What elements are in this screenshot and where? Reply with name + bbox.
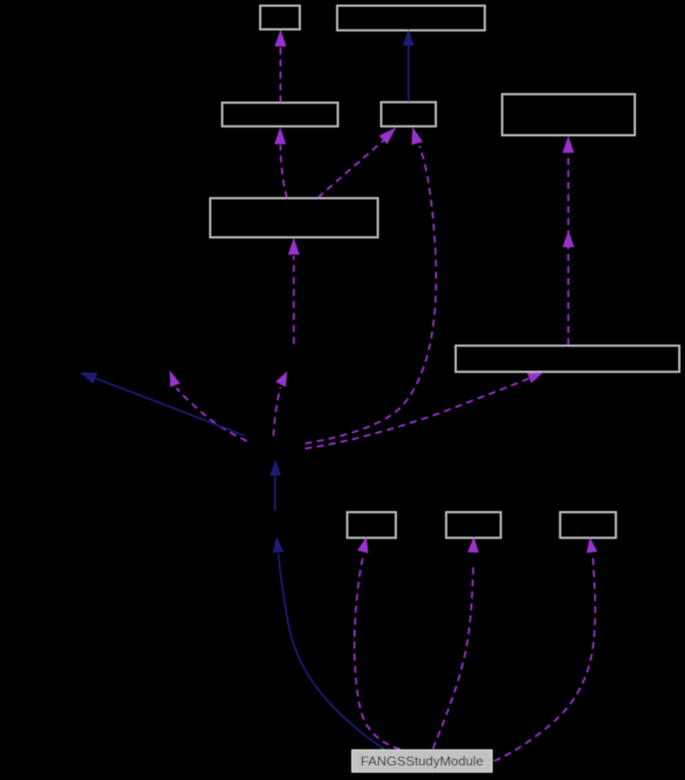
edge box6 to box3 (dashed): [274, 127, 287, 198]
node box3 (second row left): [222, 103, 338, 127]
edge hidden lower node to junction (solid navy): [270, 459, 282, 511]
node box2 (top wide): [337, 6, 485, 31]
node box10 (small row): [560, 512, 616, 538]
node box4 (second row middle): [381, 102, 436, 127]
edge FANGSStudyModule to box8 (dashed): [354, 537, 400, 749]
edge box4 to box2 (solid inheritance): [403, 29, 415, 102]
edge FANGSStudyModule to hidden lower node (long solid navy curve): [272, 536, 384, 749]
node box1 (top-left small): [260, 6, 300, 30]
edge junction to box7 (dashed): [305, 372, 544, 448]
node box7 (middle right wide): [456, 346, 680, 373]
edge junction to hidden mid node (dashed): [274, 371, 288, 436]
node FANGSStudyModule (current, filled): [352, 750, 492, 772]
edge FANGSStudyModule to box10 (dashed): [494, 537, 598, 761]
node box5 (second row right, tall): [502, 94, 635, 135]
edge junction to far left (solid navy): [80, 372, 245, 435]
edge FANGSStudyModule to box9 (dashed): [433, 537, 479, 749]
node box8 (small row): [347, 512, 396, 538]
edge junction to hidden left node (dashed): [170, 370, 247, 441]
edge hidden mid node to box6 (dashed): [288, 238, 300, 344]
node box6 (third row, tall): [210, 198, 378, 238]
edge box7 to box5 (dashed, two arrowheads): [562, 136, 574, 345]
node box9 (small row): [446, 512, 501, 538]
edge box3 to box1 (dashed): [275, 30, 287, 103]
edge junction to box4 (long dashed curve): [305, 127, 436, 444]
svg-text:FANGSStudyModule: FANGSStudyModule: [361, 754, 484, 769]
edge box6 to box4 (dashed diagonal): [318, 128, 396, 198]
